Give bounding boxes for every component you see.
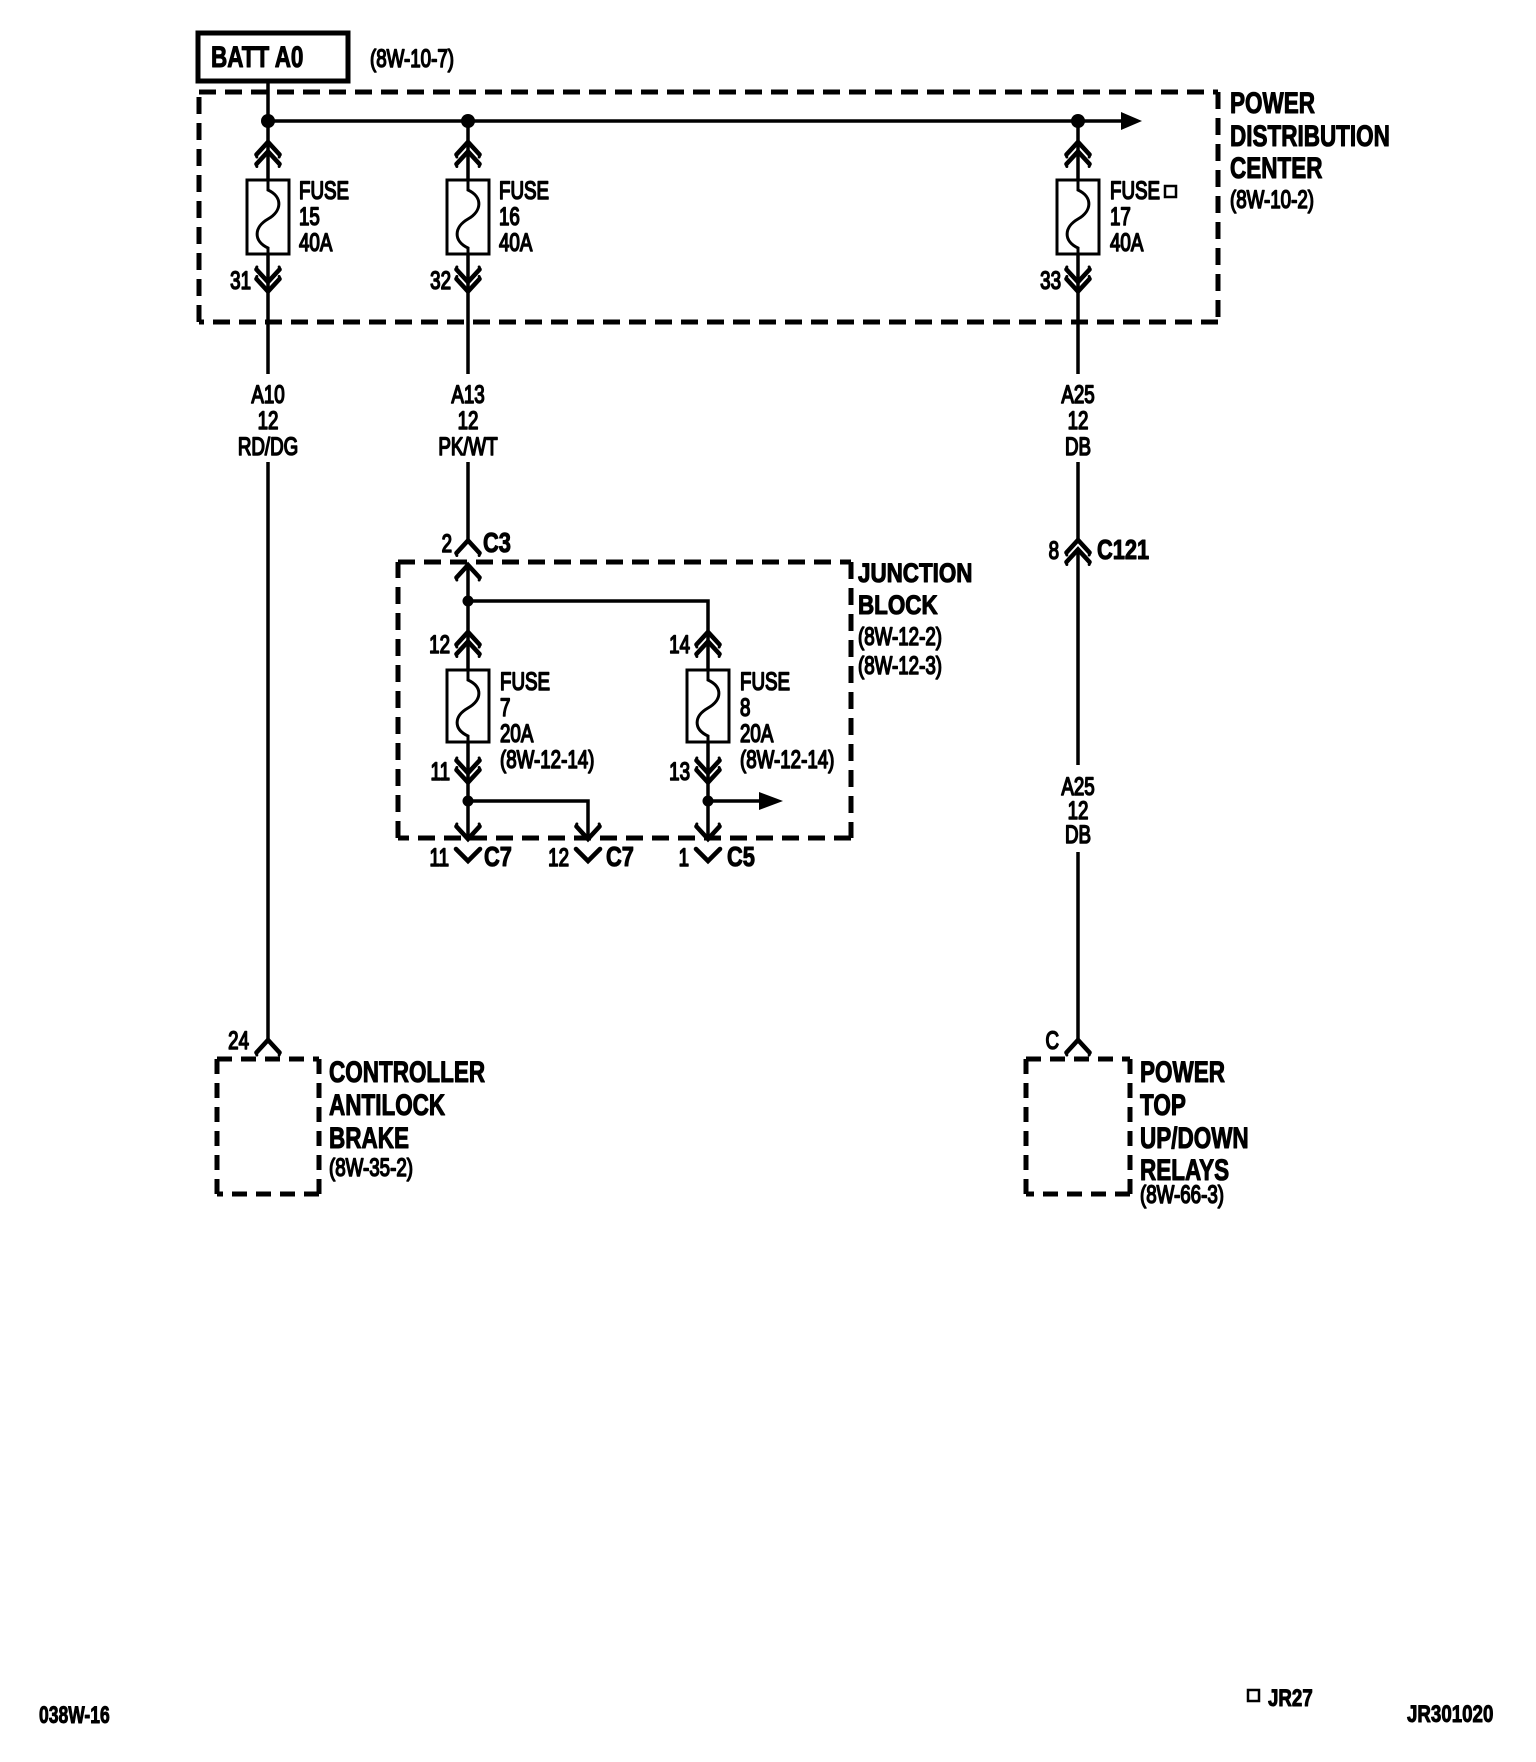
svg-text:A25: A25 [1061,380,1094,408]
pin 13 [669,757,690,785]
svg-text:DISTRIBUTION: DISTRIBUTION [1230,119,1390,153]
footnote square JR27 [1248,1690,1259,1701]
svg-text:20A: 20A [500,719,534,747]
wire branch to fuse 8 [468,601,708,670]
junction dot C3 branch [463,596,474,607]
svg-text:17: 17 [1110,202,1131,230]
controller antilock brake box [217,1059,319,1194]
svg-text:33: 33 [1040,266,1061,294]
svg-text:C7: C7 [606,841,634,872]
connector name C7 [484,841,512,872]
junction dot bus/fuse17 [1071,114,1085,128]
label FUSE 16 40A [499,176,549,256]
svg-text:BRAKE: BRAKE [329,1121,409,1155]
svg-text:24: 24 [228,1026,249,1054]
wire fuse 8 to pin 13 [706,742,710,839]
connector name C3 [483,527,511,558]
pin 8 [1049,536,1059,564]
pin 11 [431,757,450,785]
pin 1 label at C5 [679,843,689,871]
pin 2 [442,529,452,557]
svg-text:31: 31 [230,266,251,294]
svg-text:038W-16: 038W-16 [39,1702,110,1728]
pin 12 label at C7 [548,843,569,871]
wire A25 12 DB upper [1076,462,1080,539]
connector C3 upper half [456,541,480,556]
connector chevrons pin 33 [1066,267,1090,292]
junction dot bus/fuse16 [461,114,475,128]
connector chevrons pin 31 [256,267,280,292]
wire fuse 16 to pin 32 [466,254,470,374]
svg-text:A13: A13 [451,380,484,408]
svg-text:(8W-66-3): (8W-66-3) [1140,1180,1224,1208]
pin 14 [669,630,690,658]
fuse F8 20A [687,670,729,742]
svg-text:UP/DOWN: UP/DOWN [1140,1121,1249,1155]
wire fuse 8 feed arrow [708,799,759,803]
svg-text:12: 12 [458,406,479,434]
label CONTROLLER ANTILOCK BRAKE [329,1055,485,1182]
connector chevrons above fuse 15 [256,142,280,167]
svg-text:BLOCK: BLOCK [858,591,938,620]
label POWER TOP UP/DOWN RELAYS [1140,1055,1249,1209]
label FUSE 15 40A [299,176,349,256]
wire BATT A0 to fuse 15 [266,81,270,180]
svg-text:(8W-10-2): (8W-10-2) [1230,185,1314,213]
svg-text:BATT A0: BATT A0 [211,40,303,74]
bus arrow [1121,112,1142,130]
svg-text:1: 1 [679,843,689,871]
label JUNCTION BLOCK [858,559,972,680]
svg-text:12: 12 [429,630,450,658]
svg-text:FUSE: FUSE [1110,176,1160,204]
connector C7 lower half pin 11 [456,849,480,861]
connector C5 lower half pin 1 [696,849,720,861]
connector chevrons pin 11 [456,758,480,783]
footnote square at fuse 17 [1165,186,1176,197]
svg-text:(8W-12-14): (8W-12-14) [740,745,834,773]
svg-text:CONTROLLER: CONTROLLER [329,1055,485,1089]
wire bus to fuse 16 [466,121,470,180]
junction dot fuse 8 output [703,796,714,807]
pin 31 [230,266,251,294]
pin 32 [430,266,451,294]
connector name C5 [727,841,755,872]
svg-text:2: 2 [442,529,452,557]
svg-text:15: 15 [299,202,320,230]
connector name C7 second [606,841,634,872]
svg-text:(8W-12-3): (8W-12-3) [858,651,942,679]
connector chevrons pin 12 [456,632,480,657]
svg-text:TOP: TOP [1140,1088,1186,1122]
svg-text:(8W-12-14): (8W-12-14) [500,745,594,773]
wire A25 label gap lower [1061,772,1094,848]
svg-text:RD/DG: RD/DG [238,432,298,460]
svg-text:C7: C7 [484,841,512,872]
connector chevron pin 24 [256,1040,280,1055]
svg-text:ANTILOCK: ANTILOCK [329,1088,445,1122]
pin 33 [1040,266,1061,294]
svg-text:11: 11 [430,843,449,871]
svg-text:FUSE: FUSE [299,176,349,204]
svg-text:POWER: POWER [1230,86,1315,120]
junction dot bus/fuse15 [261,114,275,128]
label FUSE 17 40A [1110,176,1160,256]
svg-text:(8W-10-7): (8W-10-7) [370,44,454,72]
fuse F15 40A [247,180,289,254]
wire fuse 17 to pin 33 [1076,254,1080,374]
svg-text:(8W-35-2): (8W-35-2) [329,1153,413,1181]
svg-text:PK/WT: PK/WT [438,432,497,460]
wire A25 label gap upper [1061,380,1094,460]
reference (8W-10-7) [370,44,454,72]
fuse F17 40A [1057,180,1099,254]
wire A25 12 DB lower [1076,852,1080,1040]
svg-text:C: C [1045,1026,1059,1054]
svg-text:16: 16 [499,202,520,230]
wire A10 label gap [238,380,298,460]
svg-text:32: 32 [430,266,451,294]
pin 11 label at C7 [430,843,449,871]
svg-text:DB: DB [1065,432,1091,460]
label FUSE 8 20A (8W-12-14) [740,667,834,773]
svg-text:POWER: POWER [1140,1055,1225,1089]
power top up/down relays box [1026,1059,1130,1194]
connector C5 pin 1 exit chevron [696,824,720,839]
fuse F7 20A [447,670,489,742]
svg-text:40A: 40A [1110,228,1144,256]
wire C3 to junction [466,565,470,670]
svg-text:JR301020: JR301020 [1407,1701,1493,1728]
footer sheet number 038W-16 [39,1702,110,1728]
svg-text:CENTER: CENTER [1230,151,1322,185]
wire BATT A0 bus [268,119,1121,123]
svg-text:C5: C5 [727,841,755,872]
connector chevrons pin 13 [696,758,720,783]
footer note JR27 [1268,1685,1313,1712]
connector C7 pin 11 exit chevron [456,824,480,839]
svg-text:(8W-12-2): (8W-12-2) [858,622,942,650]
svg-text:20A: 20A [740,719,774,747]
svg-text:C121: C121 [1097,534,1149,565]
pin C [1045,1026,1059,1054]
svg-text:7: 7 [500,693,510,721]
connector chevrons above fuse 16 [456,142,480,167]
connector name C121 [1097,534,1149,565]
connector chevron pin C [1066,1040,1090,1055]
power distribution center box [199,92,1218,322]
svg-text:FUSE: FUSE [500,667,550,695]
svg-text:12: 12 [1068,406,1089,434]
wire fuse 7 to pin 11 [466,742,470,839]
connector C7 pin 12 exit chevron [576,824,600,839]
pin 12 [429,630,450,658]
connector C7 lower half pin 12 [576,849,600,861]
node BATT A0 feed box [198,33,348,81]
svg-text:8: 8 [740,693,750,721]
svg-text:13: 13 [669,757,690,785]
wire fuse 15 to pin 31 [266,254,270,374]
svg-text:11: 11 [431,757,450,785]
svg-text:14: 14 [669,630,690,658]
wire C121 to A25 lower [1076,551,1080,765]
connector chevrons pin 14 [696,632,720,657]
svg-text:JR27: JR27 [1268,1685,1313,1712]
svg-text:A10: A10 [251,380,284,408]
fuse F16 40A [447,180,489,254]
pin 24 [228,1026,249,1054]
svg-text:FUSE: FUSE [499,176,549,204]
svg-text:JUNCTION: JUNCTION [858,559,972,588]
junction block box [398,562,851,838]
wire A13 label gap [438,380,497,460]
connector chevrons above fuse 17 [1066,142,1090,167]
svg-text:12: 12 [258,406,279,434]
footer drawing number JR301020 [1407,1701,1493,1728]
svg-text:12: 12 [548,843,569,871]
junction dot fuse 7 output [463,796,474,807]
svg-text:40A: 40A [499,228,533,256]
connector C121 [1066,540,1090,565]
connector C3 lower half [456,565,480,580]
svg-text:8: 8 [1049,536,1059,564]
svg-text:40A: 40A [299,228,333,256]
svg-text:FUSE: FUSE [740,667,790,695]
connector chevrons pin 32 [456,267,480,292]
wire bus to fuse 17 [1076,121,1080,180]
label FUSE 7 20A (8W-12-14) [500,667,594,773]
wire A10 12 RD/DG [266,462,270,1040]
svg-text:DB: DB [1065,820,1091,848]
svg-text:C3: C3 [483,527,511,558]
wire A13 12 PK/WT [466,462,470,541]
label POWER DISTRIBUTION CENTER [1230,86,1390,214]
wire branch to C7 pin 12 [468,801,588,839]
